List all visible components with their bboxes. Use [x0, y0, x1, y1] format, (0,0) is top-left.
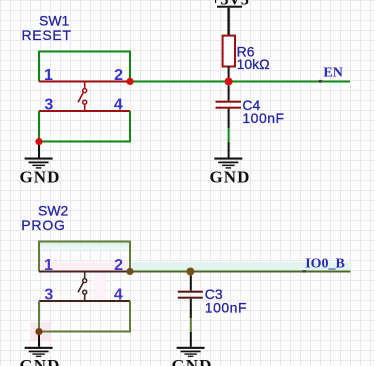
wire EN node to C4: [228, 86, 230, 101]
svg-text:10kΩ: 10kΩ: [237, 56, 270, 72]
wire SW2 loop to GND: [38, 332, 40, 347]
value 100nF C4: [242, 110, 284, 126]
svg-text:100nF: 100nF: [205, 300, 247, 316]
svg-text:4: 4: [114, 286, 123, 303]
svg-text:GND: GND: [19, 168, 60, 187]
net label IO0_B anchor: [303, 270, 306, 273]
ground GND under SW1: [19, 158, 60, 187]
svg-text:IO0_B: IO0_B: [305, 256, 345, 271]
switch SW2 comment PROG: [21, 217, 65, 233]
pin number 3: [44, 96, 53, 113]
ground GND under SW2: [19, 347, 60, 366]
svg-text:GND: GND: [19, 356, 60, 366]
svg-text:GND: GND: [171, 356, 212, 366]
pin number 2: [114, 67, 123, 84]
highlight band cyan along IO0_B wire: [132, 262, 352, 271]
highlight band pink around SW2 actuator: [94, 273, 106, 300]
svg-text:GND: GND: [209, 168, 250, 187]
switch SW1 designator: [39, 13, 70, 29]
resistor R6: [223, 36, 235, 67]
label C4: [242, 97, 260, 113]
pin number 2 SW2: [114, 257, 123, 274]
highlight band pink above SW2 pin line: [40, 262, 128, 271]
power port +3V3 bar: [217, 6, 242, 8]
wire IO0_B node to C3: [190, 276, 192, 291]
capacitor C4: [216, 101, 242, 109]
junction SW1 pin2: [126, 78, 133, 85]
switch SW1 pin1-pin2 line: [39, 81, 130, 83]
wire C4 to GND green middle: [228, 128, 230, 142]
junction SW2 pin2: [126, 268, 133, 275]
pin number 1 SW2: [44, 257, 53, 274]
svg-text:3: 3: [44, 286, 53, 303]
highlight band pink around SW2 bottom junction: [30, 322, 50, 340]
wire C3 to GND black lower: [190, 332, 192, 347]
switch SW1 pin3-pin4 line: [39, 110, 130, 112]
wire +3V3 to R6: [227, 8, 229, 36]
svg-text:1: 1: [44, 67, 53, 84]
wire SW1 top loop pin1 to pin2: [39, 52, 130, 82]
svg-text:2: 2: [114, 257, 123, 274]
junction C3 IO0_B: [186, 268, 194, 276]
wire SW1 loop to GND: [38, 142, 40, 158]
wire C3 to GND green middle: [190, 318, 192, 332]
highlight band cyan inside SW2 top loop: [40, 243, 129, 254]
net label EN: [323, 66, 342, 81]
ground GND under C4: [209, 158, 250, 187]
capacitor C3: [178, 291, 203, 299]
svg-text:RESET: RESET: [22, 27, 72, 43]
pin number 4: [114, 96, 123, 113]
switch SW1 comment RESET: [22, 27, 72, 43]
svg-text:PROG: PROG: [21, 217, 65, 233]
power port +3V3 text: [211, 0, 249, 9]
pin number 1: [44, 67, 53, 84]
junction R6 C4 EN: [225, 78, 233, 86]
junction SW1 GND: [35, 138, 42, 145]
wire SW2 top loop pin1 to pin2: [39, 242, 130, 272]
svg-text:1: 1: [44, 257, 53, 274]
net label IO0_B: [305, 256, 345, 271]
junction SW2 GND: [35, 328, 42, 335]
wire C4 to GND black lower: [228, 142, 230, 158]
value 10k: [237, 56, 270, 72]
svg-text:2: 2: [114, 67, 123, 84]
net label EN anchor: [319, 80, 322, 83]
svg-text:EN: EN: [323, 66, 342, 81]
svg-text:100nF: 100nF: [242, 110, 284, 126]
wire IO0_B net: [130, 271, 351, 273]
ground GND under C3: [171, 347, 212, 366]
wire SW2 bottom loop pin3 to pin4: [39, 301, 130, 332]
switch SW2 pin1-pin2 line: [39, 271, 130, 273]
label C3: [205, 286, 223, 302]
value 100nF C3: [205, 300, 247, 316]
wire R6 to EN node: [228, 67, 230, 81]
label R6: [237, 43, 255, 59]
switch SW2 pin3-pin4 line: [39, 300, 130, 302]
wire SW1 bottom loop pin3 to pin4: [39, 111, 130, 142]
switch SW2 actuator: [78, 272, 87, 302]
svg-text:3: 3: [44, 96, 53, 113]
wire C3 to GND black upper: [190, 299, 192, 319]
switch SW2 designator: [38, 203, 69, 219]
wire EN net: [130, 81, 350, 83]
svg-text:4: 4: [114, 96, 123, 113]
pin number 3 SW2: [44, 286, 53, 303]
pin number 4 SW2: [114, 286, 123, 303]
wire C4 to GND black upper: [228, 109, 230, 129]
switch SW1 actuator: [78, 82, 87, 112]
